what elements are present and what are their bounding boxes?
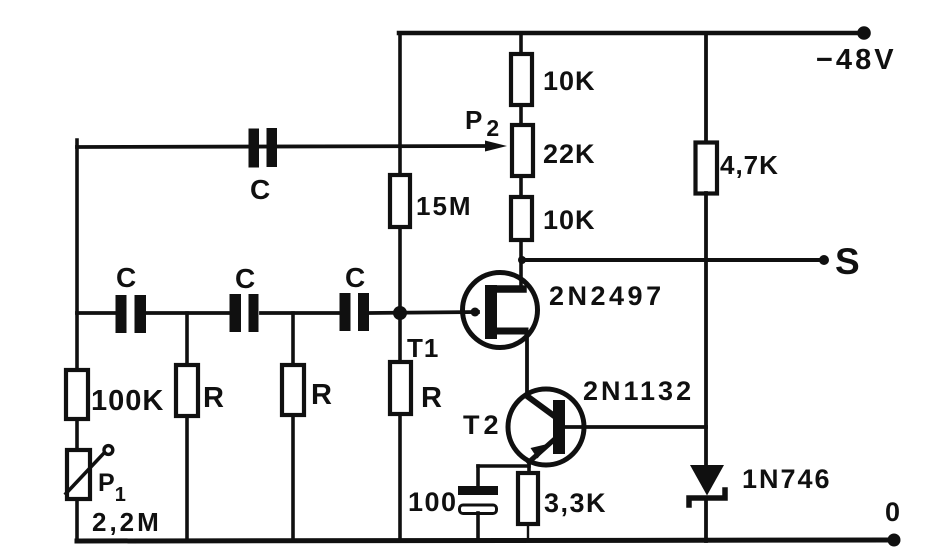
resistor R1 body (176, 365, 198, 416)
transistor T1 drain lead (497, 285, 523, 293)
svg-text:P1: P1 (98, 469, 126, 506)
wire 15M to ladder junction (398, 227, 402, 362)
capacitor C3 right plate (358, 293, 369, 331)
svg-text:C: C (116, 262, 136, 293)
wire 100K to P1 (75, 419, 79, 450)
resistor 3,3K body (518, 473, 538, 524)
wire first R vertical (185, 313, 189, 541)
transistor T2 base bar (553, 400, 565, 454)
svg-text:C: C (250, 174, 270, 205)
wire 4,7K branch from top rail (704, 33, 708, 144)
node 0 terminal dot (888, 534, 901, 547)
resistor 15M body (390, 175, 410, 227)
svg-text:100: 100 (408, 487, 458, 517)
svg-text:22K: 22K (543, 139, 596, 169)
node S terminal dot (819, 255, 829, 265)
resistor 10K lower body (511, 197, 532, 240)
wire feedback vertical (top rail to 15M) (398, 33, 402, 175)
wire feedback horizontal to P2 wiper (77, 146, 484, 147)
wire zener to bottom rail (704, 500, 708, 541)
svg-text:10K: 10K (543, 66, 596, 96)
capacitor C1 left plate (116, 295, 127, 333)
svg-text:1N746: 1N746 (742, 464, 832, 494)
resistor 10K upper body (511, 54, 532, 105)
wire 3,3K to bottom rail (527, 524, 529, 541)
resistor R3 body (390, 362, 411, 414)
svg-text:3,3K: 3,3K (544, 488, 607, 518)
svg-text:4,7K: 4,7K (720, 150, 779, 180)
capacitor C top left plate (249, 129, 260, 168)
wire second R vertical (291, 313, 295, 541)
capacitor C3 left plate (340, 293, 351, 331)
capacitor 100 top plate (458, 486, 498, 495)
zener diode 1N746 cathode bar (689, 490, 725, 505)
svg-text:2,2M: 2,2M (92, 507, 162, 537)
svg-text:2N2497: 2N2497 (549, 281, 665, 311)
wire phase-shift ladder row segment 1 (77, 311, 117, 315)
wire emitter node horizontal (478, 464, 529, 468)
wire ladder row segment 4 to T1 gate (370, 312, 478, 313)
wire T2 emitter down (527, 461, 531, 474)
transistor T1 body circle (463, 273, 538, 348)
svg-text:R: R (421, 382, 442, 414)
potentiometer P1 wiper arm (66, 453, 105, 494)
transistor T2 body circle (508, 389, 584, 465)
svg-text:T2: T2 (463, 410, 503, 440)
svg-text:0: 0 (885, 497, 900, 527)
svg-text:R: R (311, 379, 332, 411)
capacitor C2 right plate (249, 294, 259, 332)
wire R3 to bottom rail (398, 414, 402, 541)
svg-text:15M: 15M (416, 191, 473, 221)
resistor R2 body (282, 365, 304, 415)
transistor T1 source lead (497, 328, 525, 335)
wire T2 base to divider node (565, 425, 706, 429)
wire lower 10K to T1 drain (519, 240, 523, 290)
wire left vertical (75, 140, 79, 370)
capacitor C top right plate (267, 128, 278, 167)
wire divider chain from top rail (519, 33, 523, 55)
transistor T1 gate bar (485, 285, 497, 339)
transistor T2 emitter arrowhead (531, 444, 550, 459)
resistor 4,7K body (696, 143, 718, 194)
transistor T2 collector lead diagonal (527, 396, 557, 418)
wire ladder row segment 3 (261, 311, 341, 315)
svg-text:T1: T1 (407, 333, 439, 363)
potentiometer P1 wiper terminal circle (104, 446, 113, 455)
node -48V terminal (857, 26, 871, 40)
potentiometer P1 body (67, 450, 90, 499)
svg-text:C: C (345, 262, 365, 293)
wire T1 source to T2 (525, 331, 527, 396)
wire 4,7K to zener node (704, 193, 708, 466)
transistor T2 emitter lead diagonal (529, 437, 557, 462)
svg-text:100K: 100K (91, 385, 164, 417)
resistor 100K body (66, 370, 88, 419)
wire ladder row segment 2 (146, 311, 232, 315)
zener diode 1N746 triangle (690, 465, 724, 496)
wire P2 to lower 10K (519, 176, 523, 198)
wire to bypass capacitor (476, 466, 480, 487)
wire 10K to P2 (519, 105, 523, 126)
capacitor C2 left plate (230, 294, 242, 332)
potentiometer P2 22K body (512, 125, 533, 176)
wire capacitor to bottom rail (476, 513, 480, 541)
svg-text:R: R (203, 382, 224, 414)
svg-text:−48V: −48V (816, 44, 897, 76)
svg-text:2N1132: 2N1132 (583, 376, 694, 406)
node T1 gate terminal dot (471, 308, 480, 317)
wire output S line (521, 258, 823, 262)
svg-text:P2: P2 (465, 105, 499, 141)
svg-text:10K: 10K (543, 205, 596, 235)
wire P1 to bottom rail (75, 499, 79, 541)
svg-text:C: C (235, 263, 255, 294)
P2 wiper arrowhead (485, 141, 507, 152)
wire bottom ground rail (77, 540, 893, 541)
wire top supply rail (399, 31, 863, 36)
node S junction dot (518, 256, 526, 264)
capacitor 100 bottom plate (460, 505, 497, 514)
capacitor C1 right plate (135, 295, 147, 333)
svg-text:S: S (835, 241, 860, 282)
node junction dot at ladder output (393, 306, 407, 320)
